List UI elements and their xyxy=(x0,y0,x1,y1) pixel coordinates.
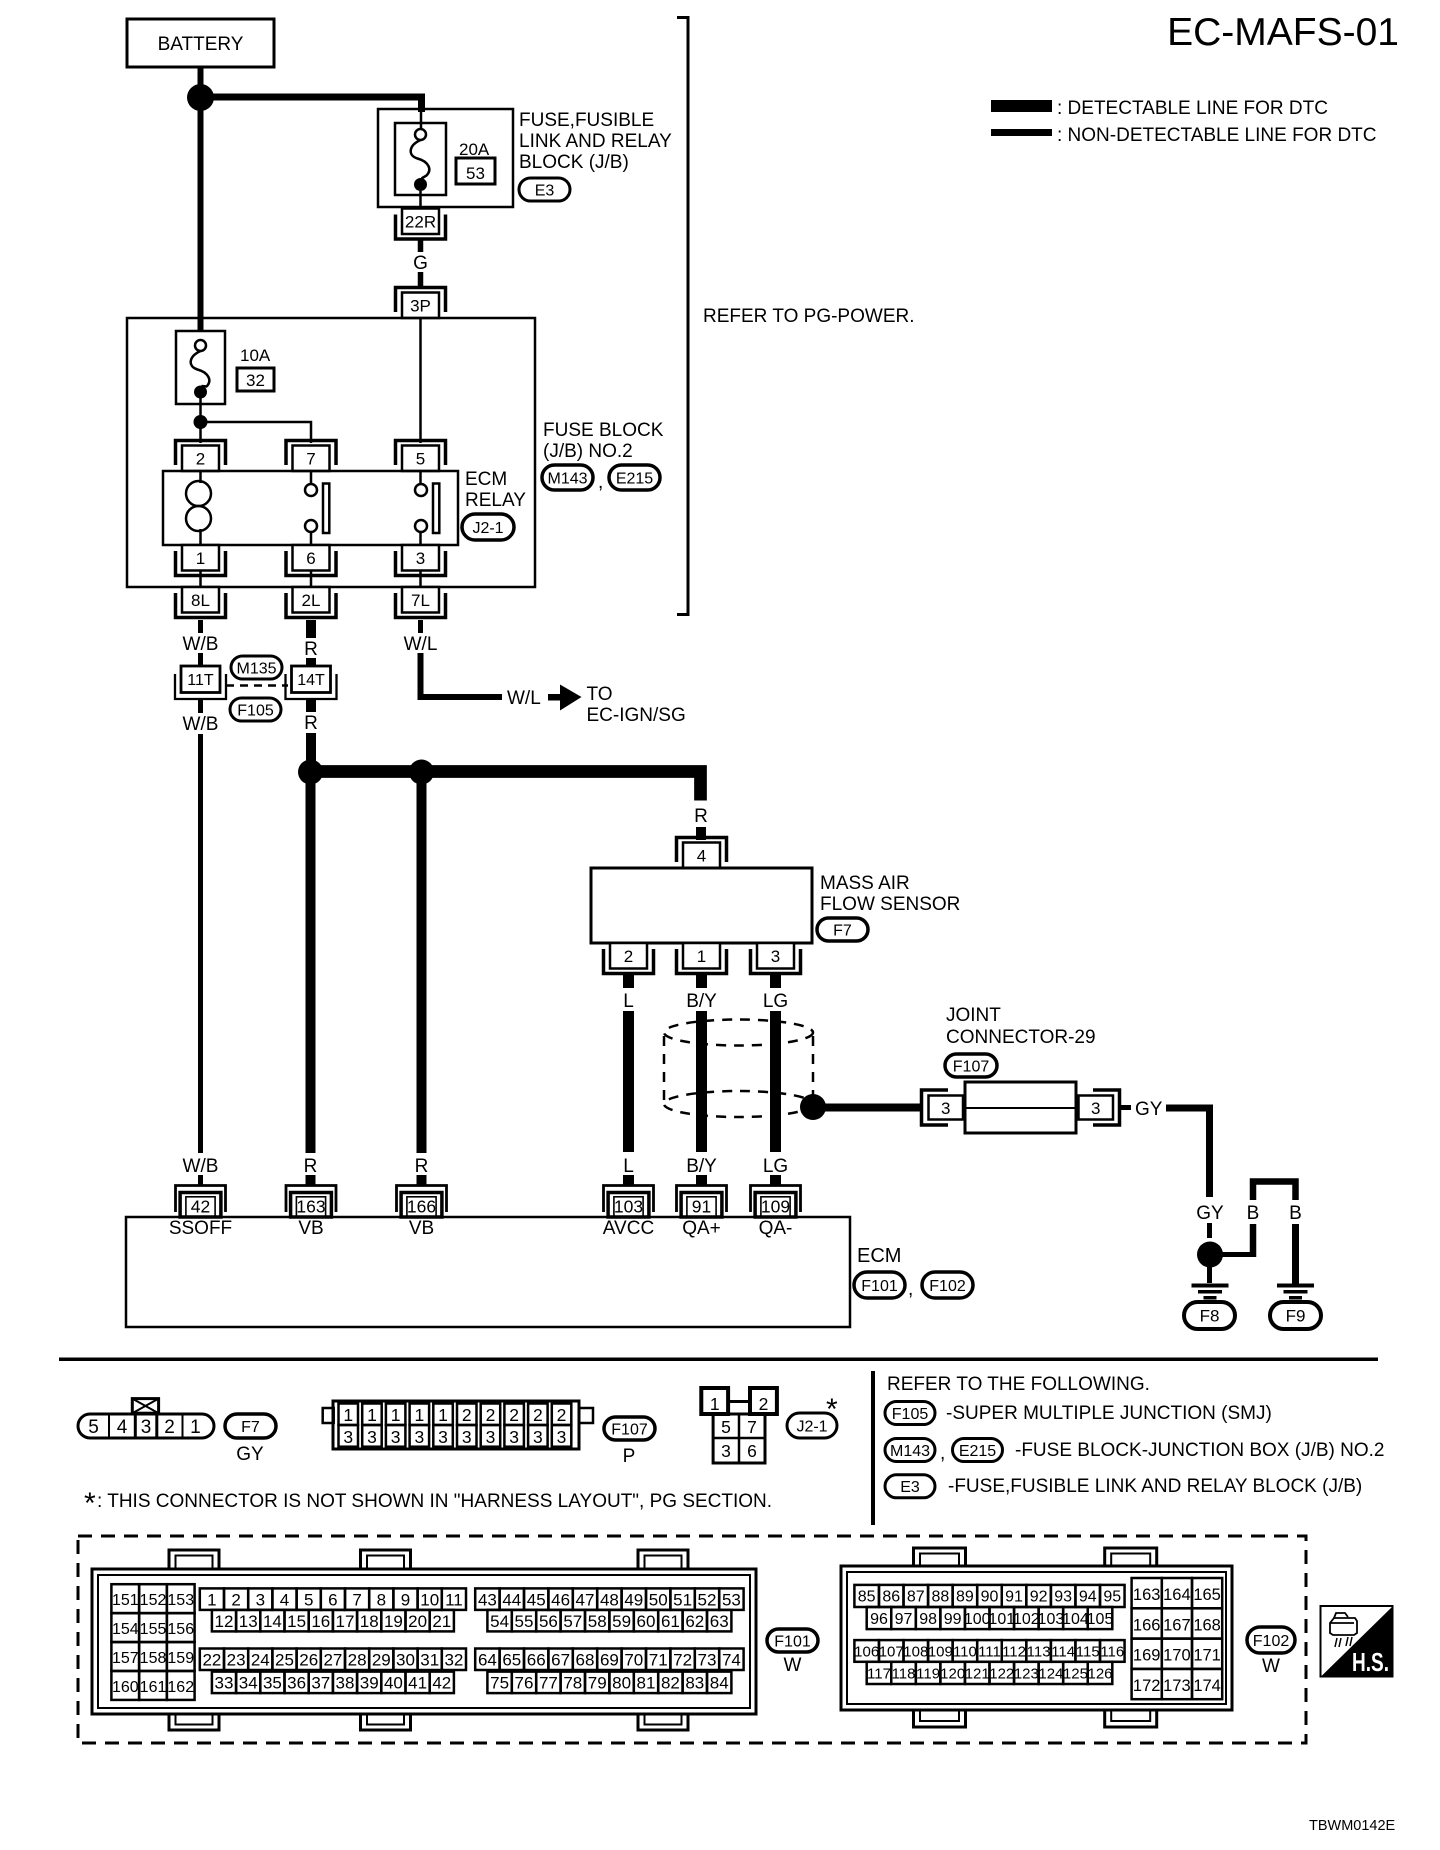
svg-text:R: R xyxy=(694,806,708,827)
svg-text:F7: F7 xyxy=(833,922,852,939)
wire battery to junction xyxy=(198,67,204,90)
svg-text:F8: F8 xyxy=(1200,1307,1220,1326)
svg-text:L: L xyxy=(623,991,634,1012)
svg-text:R: R xyxy=(304,1156,318,1177)
svg-text:98: 98 xyxy=(919,1611,937,1628)
svg-text:FUSE,FUSIBLE: FUSE,FUSIBLE xyxy=(519,110,654,131)
svg-text:109: 109 xyxy=(928,1643,953,1660)
svg-text:93: 93 xyxy=(1054,1589,1072,1606)
svg-text:42: 42 xyxy=(191,1197,210,1217)
svg-text:E215: E215 xyxy=(959,1443,996,1460)
svg-text:50: 50 xyxy=(649,1590,668,1609)
svg-text:54: 54 xyxy=(490,1612,509,1631)
svg-text:GY: GY xyxy=(1135,1099,1163,1120)
shield ground junction node xyxy=(800,1094,826,1120)
svg-text:21: 21 xyxy=(432,1612,451,1631)
svg-text:169: 169 xyxy=(1133,1647,1161,1665)
svg-text:101: 101 xyxy=(988,1611,1015,1628)
connector ref J2-1 oval at face view xyxy=(787,1413,837,1438)
ECM connector F101 face view xyxy=(169,1550,219,1569)
ground ref F9 oval xyxy=(1270,1302,1321,1329)
svg-text:152: 152 xyxy=(140,1592,167,1609)
svg-text:16: 16 xyxy=(311,1612,330,1631)
ECM pin 109 xyxy=(751,1186,801,1213)
wire L through shield xyxy=(623,1011,634,1152)
connector ref F101 oval at face view xyxy=(767,1629,818,1652)
svg-text:79: 79 xyxy=(588,1673,607,1692)
ECM pin 91 xyxy=(677,1186,727,1213)
svg-text:48: 48 xyxy=(600,1590,619,1609)
svg-text:5: 5 xyxy=(416,449,425,468)
svg-text:77: 77 xyxy=(539,1673,558,1692)
svg-text:86: 86 xyxy=(882,1589,900,1606)
svg-text:REFER TO THE FOLLOWING.: REFER TO THE FOLLOWING. xyxy=(887,1374,1150,1395)
svg-text:51: 51 xyxy=(673,1590,692,1609)
svg-text:113: 113 xyxy=(1027,1643,1051,1660)
wire junction to fusible link E3 xyxy=(201,97,422,112)
wire R to bus junction xyxy=(306,733,316,765)
svg-text:105: 105 xyxy=(1087,1611,1114,1628)
svg-text:125: 125 xyxy=(1063,1665,1088,1682)
svg-text:119: 119 xyxy=(916,1665,940,1682)
svg-text:3: 3 xyxy=(721,1441,731,1461)
svg-text:33: 33 xyxy=(215,1673,234,1692)
svg-text:2: 2 xyxy=(509,1405,519,1425)
relay coil xyxy=(199,471,202,483)
battery xyxy=(127,19,274,67)
wire fuse to 22R xyxy=(419,191,422,208)
svg-text:W/L: W/L xyxy=(507,688,541,709)
svg-text:74: 74 xyxy=(722,1650,741,1669)
svg-text:156: 156 xyxy=(167,1621,194,1638)
svg-text:3: 3 xyxy=(771,947,780,966)
svg-text:75: 75 xyxy=(490,1673,509,1692)
svg-text:GY: GY xyxy=(236,1444,264,1465)
svg-text:SSOFF: SSOFF xyxy=(169,1218,232,1239)
fuse number 32 box xyxy=(237,368,274,391)
svg-text:159: 159 xyxy=(167,1650,194,1667)
wire 3P to ECM relay pin 5 xyxy=(419,318,422,443)
svg-text:7: 7 xyxy=(306,449,315,468)
connector ref F7 oval xyxy=(817,918,868,941)
bracket for PG-POWER reference xyxy=(677,18,688,615)
connector ref F7 oval at face view xyxy=(225,1414,276,1438)
svg-text:104: 104 xyxy=(1062,1611,1089,1628)
svg-text:: THIS CONNECTOR IS NOT SHOWN: : THIS CONNECTOR IS NOT SHOWN IN "HARNES… xyxy=(97,1491,772,1512)
svg-text:5: 5 xyxy=(304,1590,313,1609)
svg-text:27: 27 xyxy=(323,1650,342,1669)
svg-text:6: 6 xyxy=(328,1590,337,1609)
svg-text:43: 43 xyxy=(478,1590,497,1609)
connector ref F105 oval in list xyxy=(885,1402,935,1425)
wire node to ground F8 xyxy=(1207,1266,1212,1283)
svg-text:87: 87 xyxy=(907,1589,925,1606)
connector 7L xyxy=(402,587,439,613)
svg-text:GY: GY xyxy=(1196,1203,1224,1224)
svg-text:72: 72 xyxy=(673,1650,692,1669)
svg-text:TBWM0142E: TBWM0142E xyxy=(1309,1818,1396,1834)
ECM box xyxy=(126,1217,850,1327)
svg-text:E3: E3 xyxy=(900,1479,920,1496)
svg-text:3P: 3P xyxy=(410,296,431,315)
svg-text:88: 88 xyxy=(931,1589,949,1606)
svg-text:102: 102 xyxy=(1013,1611,1040,1628)
svg-text:122: 122 xyxy=(989,1665,1014,1682)
svg-text:2: 2 xyxy=(557,1405,567,1425)
svg-text:123: 123 xyxy=(1014,1665,1039,1682)
svg-text:78: 78 xyxy=(563,1673,582,1692)
svg-text:163: 163 xyxy=(296,1197,325,1217)
svg-text:1: 1 xyxy=(438,1405,448,1425)
svg-text:F7: F7 xyxy=(241,1419,260,1436)
ECM relay pin 1 xyxy=(182,545,219,571)
connector ref F102 oval xyxy=(922,1272,973,1298)
svg-text:111: 111 xyxy=(978,1643,1001,1660)
connector 8L xyxy=(182,587,219,613)
svg-text:J2-1: J2-1 xyxy=(472,520,503,537)
svg-text:2L: 2L xyxy=(302,591,321,610)
fuse fusible link and relay block E3 box xyxy=(378,109,513,207)
svg-text:41: 41 xyxy=(408,1673,427,1692)
legend non-detectable line sample xyxy=(991,129,1052,136)
fuse 10A box xyxy=(176,331,225,404)
fusible link 20A symbol xyxy=(415,129,426,140)
wire R below 14T xyxy=(306,699,316,712)
svg-text:168: 168 xyxy=(1193,1616,1221,1634)
svg-text:40: 40 xyxy=(384,1673,403,1692)
svg-text:3: 3 xyxy=(1091,1099,1100,1118)
svg-text:3: 3 xyxy=(256,1590,265,1609)
svg-text:2: 2 xyxy=(462,1405,472,1425)
wire W/B down to ECM pin 42 xyxy=(198,734,203,1153)
svg-text:170: 170 xyxy=(1163,1647,1191,1665)
svg-text:3: 3 xyxy=(367,1427,377,1447)
svg-text:166: 166 xyxy=(1133,1616,1161,1634)
svg-text:171: 171 xyxy=(1193,1647,1221,1665)
wire relay pin 6 to 2L xyxy=(310,571,313,587)
svg-text:H.S.: H.S. xyxy=(1352,1647,1389,1677)
svg-text:B/Y: B/Y xyxy=(686,991,717,1012)
ECM pin 163 xyxy=(286,1186,336,1213)
svg-text:TO: TO xyxy=(587,684,613,705)
svg-text:117: 117 xyxy=(867,1665,891,1682)
svg-text:5: 5 xyxy=(721,1417,731,1437)
svg-text:R: R xyxy=(304,713,318,734)
wire node to B branch xyxy=(1222,1252,1256,1257)
svg-text:163: 163 xyxy=(1133,1586,1161,1604)
svg-text:(J/B) NO.2: (J/B) NO.2 xyxy=(543,441,633,462)
svg-text:E215: E215 xyxy=(616,470,653,487)
svg-text:3: 3 xyxy=(416,549,425,568)
svg-text:25: 25 xyxy=(275,1650,294,1669)
svg-text:ECM: ECM xyxy=(857,1245,901,1267)
SMJ connector 14T xyxy=(292,666,331,693)
svg-text:85: 85 xyxy=(858,1589,876,1606)
svg-text:155: 155 xyxy=(140,1621,167,1638)
ECM pin 42 xyxy=(176,1186,226,1213)
svg-text:84: 84 xyxy=(710,1673,729,1692)
svg-text:JOINT: JOINT xyxy=(946,1005,1001,1026)
svg-text:154: 154 xyxy=(112,1621,139,1638)
svg-text:1: 1 xyxy=(710,1394,720,1414)
svg-text:G: G xyxy=(413,253,428,274)
wire B/Y stub below MAFS pin 1 xyxy=(696,974,707,988)
svg-text:32: 32 xyxy=(444,1650,463,1669)
svg-text:28: 28 xyxy=(348,1650,367,1669)
svg-text:115: 115 xyxy=(1076,1643,1100,1660)
svg-text:3: 3 xyxy=(533,1427,543,1447)
svg-text:83: 83 xyxy=(685,1673,704,1692)
wire W/B from 8L xyxy=(198,620,203,633)
svg-text:49: 49 xyxy=(624,1590,643,1609)
legend detectable line sample xyxy=(991,100,1052,112)
svg-text:: NON-DETECTABLE LINE FOR DTC: : NON-DETECTABLE LINE FOR DTC xyxy=(1057,125,1377,146)
svg-text:L: L xyxy=(623,1156,634,1177)
svg-text:1: 1 xyxy=(190,1417,201,1438)
connector ref F105 oval xyxy=(230,698,281,721)
svg-text:2: 2 xyxy=(624,947,633,966)
svg-text:103: 103 xyxy=(1038,1611,1065,1628)
ECM relay pin 6 xyxy=(293,545,330,571)
svg-text:64: 64 xyxy=(478,1650,497,1669)
svg-text:61: 61 xyxy=(661,1612,680,1631)
svg-text:124: 124 xyxy=(1038,1665,1063,1682)
svg-text:29: 29 xyxy=(372,1650,391,1669)
wire relay pin 1 to 8L xyxy=(199,571,202,587)
svg-text:165: 165 xyxy=(1193,1586,1221,1604)
ground symbol F8 xyxy=(1192,1284,1229,1288)
shield right dashed side xyxy=(812,1036,815,1098)
wire W/B stub to pin 42 xyxy=(198,1175,203,1185)
svg-text:-SUPER MULTIPLE JUNCTION (SMJ): -SUPER MULTIPLE JUNCTION (SMJ) xyxy=(946,1403,1272,1424)
svg-text:100: 100 xyxy=(964,1611,991,1628)
svg-text:EC-MAFS-01: EC-MAFS-01 xyxy=(1167,11,1399,54)
svg-text:56: 56 xyxy=(539,1612,558,1631)
separator line xyxy=(59,1358,1378,1362)
F101 middle pin rows 1-42 xyxy=(200,1588,224,1610)
svg-text:167: 167 xyxy=(1163,1616,1191,1634)
connector ref J2-1 oval xyxy=(462,514,514,540)
svg-text:22: 22 xyxy=(202,1650,221,1669)
F102 left pin rows 85-126 xyxy=(854,1585,879,1607)
connector ref M135 oval xyxy=(231,656,282,679)
svg-text:166: 166 xyxy=(407,1197,436,1217)
svg-text:46: 46 xyxy=(551,1590,570,1609)
svg-text:160: 160 xyxy=(112,1679,139,1696)
junction node R bus left xyxy=(298,760,323,785)
joint connector left pin 3 xyxy=(922,1090,949,1125)
svg-text:F102: F102 xyxy=(929,1278,966,1295)
svg-text:LG: LG xyxy=(763,1156,788,1177)
svg-text:2: 2 xyxy=(231,1590,240,1609)
junction node below fuse 10A xyxy=(194,415,208,429)
svg-text:108: 108 xyxy=(903,1643,928,1660)
svg-text:REFER TO PG-POWER.: REFER TO PG-POWER. xyxy=(703,306,915,327)
wire W/L down and right xyxy=(421,653,503,697)
junction node at battery feed xyxy=(187,84,214,111)
svg-text:81: 81 xyxy=(637,1673,656,1692)
svg-text:96: 96 xyxy=(870,1611,888,1628)
svg-text:22R: 22R xyxy=(405,212,436,231)
svg-text:82: 82 xyxy=(661,1673,680,1692)
svg-text:174: 174 xyxy=(1193,1677,1221,1695)
svg-text:2: 2 xyxy=(196,449,205,468)
svg-text:ECM: ECM xyxy=(465,469,507,490)
svg-text:3: 3 xyxy=(486,1427,496,1447)
svg-text:1: 1 xyxy=(196,549,205,568)
svg-text:EC-IGN/SG: EC-IGN/SG xyxy=(587,705,686,726)
ECM pin 166 xyxy=(397,1186,447,1213)
svg-text:67: 67 xyxy=(551,1650,570,1669)
svg-text:3: 3 xyxy=(941,1099,950,1118)
ECM relay pin 3 xyxy=(402,545,439,571)
svg-text:76: 76 xyxy=(515,1673,534,1692)
arrow to EC-IGN/SG xyxy=(548,694,562,701)
joint connector body xyxy=(965,1082,1076,1133)
wire GY to ground node xyxy=(1207,1223,1212,1238)
svg-text:7: 7 xyxy=(352,1590,361,1609)
svg-text:8: 8 xyxy=(377,1590,386,1609)
wire B right to ground F9 xyxy=(1292,1224,1299,1285)
svg-text:3: 3 xyxy=(391,1427,401,1447)
svg-text:153: 153 xyxy=(167,1592,194,1609)
fuse block J/B no.2 box xyxy=(127,318,535,587)
wire junction to relay pin 2 xyxy=(199,422,202,443)
shield bottom dashed ellipse xyxy=(664,1091,813,1117)
svg-text:161: 161 xyxy=(140,1679,167,1696)
svg-text:BATTERY: BATTERY xyxy=(158,34,244,55)
svg-text:35: 35 xyxy=(263,1673,282,1692)
svg-text:11: 11 xyxy=(445,1590,463,1609)
svg-text:120: 120 xyxy=(940,1665,965,1682)
svg-text:7: 7 xyxy=(747,1417,757,1437)
svg-text:31: 31 xyxy=(420,1650,439,1669)
svg-text:11T: 11T xyxy=(187,672,214,689)
dashed detail box xyxy=(78,1536,1306,1743)
wire junction to relay pin 7 xyxy=(201,422,312,443)
svg-text:103: 103 xyxy=(614,1197,643,1217)
svg-text:8L: 8L xyxy=(191,591,210,610)
svg-text:13: 13 xyxy=(239,1612,258,1631)
svg-text:10A: 10A xyxy=(240,346,271,365)
svg-text:164: 164 xyxy=(1163,1586,1191,1604)
svg-text:73: 73 xyxy=(698,1650,717,1669)
svg-text:AVCC: AVCC xyxy=(603,1218,654,1239)
svg-text:1: 1 xyxy=(414,1405,424,1425)
svg-text:10: 10 xyxy=(420,1590,439,1609)
svg-text:3: 3 xyxy=(141,1417,152,1438)
shield left dashed side xyxy=(663,1036,666,1102)
svg-text:20: 20 xyxy=(408,1612,427,1631)
svg-text:F102: F102 xyxy=(1253,1633,1290,1650)
svg-text:B: B xyxy=(1289,1203,1302,1224)
svg-text:7L: 7L xyxy=(411,591,430,610)
svg-text:9: 9 xyxy=(401,1590,410,1609)
mass air flow sensor box xyxy=(591,868,812,943)
svg-text:99: 99 xyxy=(944,1611,962,1628)
wire fuse 10A to junction xyxy=(199,398,202,417)
svg-text:18: 18 xyxy=(360,1612,379,1631)
svg-text:12: 12 xyxy=(215,1612,234,1631)
svg-text:1: 1 xyxy=(207,1590,216,1609)
svg-text:QA+: QA+ xyxy=(682,1218,721,1239)
svg-text:52: 52 xyxy=(698,1590,717,1609)
fuse number 53 box xyxy=(456,158,495,184)
svg-text:69: 69 xyxy=(600,1650,619,1669)
refer-to-following divider bar xyxy=(871,1371,875,1525)
wire G between 22R and 3P xyxy=(418,239,424,252)
svg-text:91: 91 xyxy=(1005,1589,1023,1606)
wire junction down to fuse block xyxy=(198,97,204,331)
wire R from 2L xyxy=(306,620,316,638)
relay contact pins 5-3 xyxy=(419,471,422,484)
svg-text:59: 59 xyxy=(612,1612,631,1631)
svg-text:1: 1 xyxy=(367,1405,377,1425)
svg-text:57: 57 xyxy=(563,1612,582,1631)
svg-text:W/B: W/B xyxy=(183,634,219,655)
svg-text:20A: 20A xyxy=(459,140,490,159)
svg-text:M143: M143 xyxy=(890,1443,930,1460)
svg-text:B/Y: B/Y xyxy=(686,1156,717,1177)
svg-text:R: R xyxy=(415,1156,429,1177)
svg-text:FLOW SENSOR: FLOW SENSOR xyxy=(820,894,960,915)
connector 22R xyxy=(402,209,439,235)
svg-text:23: 23 xyxy=(227,1650,246,1669)
wire GY to ground branch xyxy=(1166,1108,1210,1197)
connector ref E3 oval xyxy=(519,178,570,201)
svg-text:B: B xyxy=(1247,1203,1260,1224)
svg-text:CONNECTOR-29: CONNECTOR-29 xyxy=(946,1027,1096,1048)
connector ref E215 oval xyxy=(609,465,660,490)
svg-text:-FUSE BLOCK-JUNCTION BOX (J/B): -FUSE BLOCK-JUNCTION BOX (J/B) NO.2 xyxy=(1015,1440,1384,1461)
svg-text:*: * xyxy=(826,1393,838,1426)
ECM relay pin 7 xyxy=(293,446,330,472)
svg-text:LINK AND RELAY: LINK AND RELAY xyxy=(519,131,672,152)
connector ref M143 oval xyxy=(542,465,593,490)
svg-text:F105: F105 xyxy=(237,702,274,719)
svg-text:F105: F105 xyxy=(892,1406,929,1423)
svg-text:158: 158 xyxy=(140,1650,167,1667)
wire R bus right drop to ECM pin 166 xyxy=(417,778,427,1153)
svg-text:3: 3 xyxy=(438,1427,448,1447)
wire R bus left drop to ECM pin 163 xyxy=(306,778,316,1153)
svg-text:3: 3 xyxy=(414,1427,424,1447)
svg-text:,: , xyxy=(940,1443,945,1464)
svg-text:90: 90 xyxy=(981,1589,999,1606)
svg-text:-FUSE,FUSIBLE LINK AND RELAY B: -FUSE,FUSIBLE LINK AND RELAY BLOCK (J/B) xyxy=(948,1476,1362,1497)
svg-text:107: 107 xyxy=(879,1643,904,1660)
wire LG through shield xyxy=(770,1011,781,1152)
svg-text:F101: F101 xyxy=(861,1278,898,1295)
H.S. inspection logo xyxy=(1321,1606,1393,1677)
svg-text:1: 1 xyxy=(697,947,706,966)
svg-text:126: 126 xyxy=(1088,1665,1113,1682)
svg-text:J2-1: J2-1 xyxy=(796,1418,827,1435)
svg-text:162: 162 xyxy=(167,1679,194,1696)
svg-text:2: 2 xyxy=(533,1405,543,1425)
svg-text:151: 151 xyxy=(112,1592,139,1609)
wire B/Y through shield xyxy=(696,1011,707,1152)
svg-text:3: 3 xyxy=(557,1427,567,1447)
wire stub to GY label xyxy=(1120,1105,1132,1110)
svg-text:2: 2 xyxy=(486,1405,496,1425)
svg-text:172: 172 xyxy=(1133,1677,1161,1695)
svg-text:80: 80 xyxy=(612,1673,631,1692)
svg-text:14T: 14T xyxy=(297,672,325,689)
svg-text:19: 19 xyxy=(384,1612,403,1631)
wire relay pin 3 to 7L xyxy=(419,571,422,587)
svg-text:,: , xyxy=(598,472,603,493)
